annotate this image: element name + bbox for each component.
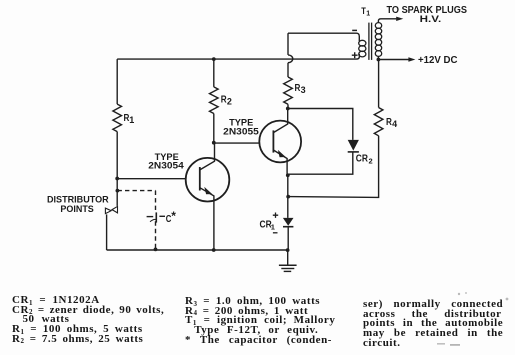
- svg-text:POINTS: POINTS: [60, 204, 93, 214]
- svg-text:1: 1: [271, 223, 275, 232]
- svg-text:4: 4: [392, 119, 397, 129]
- svg-text:DISTRIBUTOR: DISTRIBUTOR: [47, 195, 109, 205]
- svg-text:H.V.: H.V.: [420, 14, 442, 24]
- svg-text:2: 2: [369, 157, 373, 166]
- svg-text:2: 2: [227, 97, 232, 107]
- svg-text:2N3054: 2N3054: [148, 160, 183, 170]
- svg-text:2N3055: 2N3055: [223, 126, 259, 136]
- svg-text:+12V DC: +12V DC: [418, 55, 458, 66]
- svg-text:CR: CR: [356, 153, 369, 164]
- svg-text:1: 1: [366, 11, 370, 18]
- svg-text:*: *: [171, 209, 176, 223]
- svg-text:1: 1: [129, 115, 134, 125]
- svg-text:3: 3: [301, 85, 306, 95]
